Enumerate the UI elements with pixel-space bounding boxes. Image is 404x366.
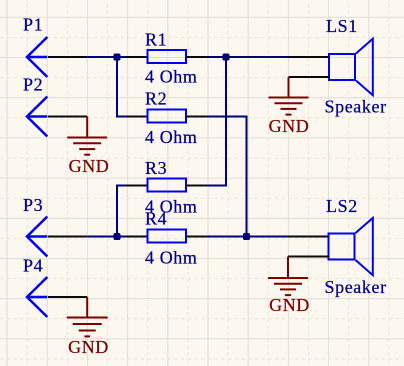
wire P3 pin to R4 pin: [87, 236, 126, 238]
svg-text:GND: GND: [269, 116, 310, 136]
svg-text:4 Ohm: 4 Ohm: [145, 127, 198, 147]
wire R1 to LS1: [207, 56, 289, 58]
ground GND (LS1): [269, 77, 309, 115]
junction J1: [114, 54, 121, 61]
junction J2: [223, 54, 230, 61]
svg-text:LS2: LS2: [326, 196, 358, 216]
wire to R3 left: [116, 185, 127, 187]
svg-text:GND: GND: [269, 295, 310, 315]
port P1: [23, 15, 47, 78]
speaker LS2: [325, 196, 387, 297]
wire R2 right: [207, 116, 247, 118]
svg-text:P2: P2: [23, 75, 43, 95]
pin P1: [48, 56, 87, 58]
ground GND (P4): [67, 297, 108, 336]
svg-text:P4: P4: [23, 256, 43, 276]
svg-text:4 Ohm: 4 Ohm: [145, 248, 198, 268]
svg-text:P3: P3: [23, 195, 43, 215]
pin R4.1: [127, 236, 148, 238]
pin R4.2: [186, 236, 207, 238]
wire R4 to LS2: [207, 236, 288, 238]
svg-text:Speaker: Speaker: [325, 97, 387, 117]
port P3: [23, 195, 47, 257]
port P4: [23, 256, 47, 318]
resistor R3: [145, 158, 198, 217]
wire P1 pin to R1 pin: [87, 56, 126, 58]
pin P3: [48, 236, 87, 238]
svg-text:R3: R3: [145, 158, 167, 178]
wire R3 up to J2: [225, 57, 227, 187]
pin R2.2: [186, 116, 207, 118]
svg-text:GND: GND: [68, 337, 109, 357]
pin R3.2: [186, 185, 207, 187]
wire to R2 left: [116, 116, 127, 118]
wire J1 down to R2: [116, 56, 118, 117]
ground GND (P2): [67, 117, 107, 155]
ground GND (LS2): [268, 257, 308, 296]
svg-text:R2: R2: [145, 89, 167, 109]
pin LS1.1: [289, 56, 330, 58]
svg-text:GND: GND: [69, 156, 110, 176]
wire J4 up to R3: [116, 186, 118, 238]
svg-text:P1: P1: [23, 15, 43, 35]
wire R2 down to LS2 line: [246, 116, 248, 237]
svg-text:Speaker: Speaker: [325, 277, 387, 297]
svg-text:R1: R1: [145, 30, 167, 50]
resistor R2: [145, 89, 198, 148]
pin LS2.1: [288, 236, 329, 238]
junction J4: [114, 233, 121, 240]
svg-text:4 Ohm: 4 Ohm: [145, 67, 198, 87]
svg-text:LS1: LS1: [326, 16, 358, 36]
wire R3 right: [207, 185, 226, 187]
pin LS2.2: [288, 256, 330, 258]
port P2: [23, 75, 47, 137]
pin R2.1: [127, 116, 148, 118]
speaker LS1: [325, 16, 387, 117]
pin R1.1: [127, 56, 148, 58]
resistor R1: [145, 30, 198, 87]
pin P2: [48, 116, 87, 118]
pin R3.1: [127, 185, 148, 187]
svg-text:R4: R4: [145, 209, 167, 229]
resistor R4: [145, 209, 198, 268]
pin R1.2: [186, 56, 207, 58]
junction J3: [243, 233, 250, 240]
pin LS1.2: [289, 76, 331, 78]
pin P4: [48, 296, 87, 298]
